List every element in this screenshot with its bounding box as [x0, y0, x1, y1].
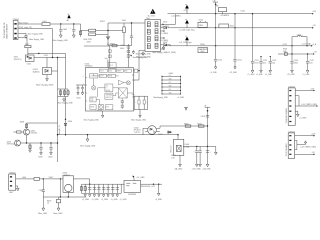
junction rail143 x46	[50, 142, 51, 143]
resistor R608	[25, 123, 27, 129]
CN504 pin 4	[289, 149, 291, 150]
svg-text:MAIN CHASSIS: MAIN CHASSIS	[5, 23, 8, 38]
svg-text:TO AUDIO BOARD: TO AUDIO BOARD	[285, 107, 288, 123]
capacitor C620	[39, 179, 45, 208]
svg-text:REG: REG	[199, 25, 203, 27]
svg-text:D502: D502	[163, 22, 167, 24]
IC601 pin number specks	[83, 75, 135, 97]
svg-text:+5_15W_Light_Reg: +5_15W_Light_Reg	[179, 29, 195, 32]
net flag +B	[204, 106, 210, 112]
junction mod out 2	[158, 184, 159, 185]
svg-text:C608: C608	[38, 156, 42, 158]
rail +5V	[170, 27, 312, 29]
snubber R611	[134, 69, 140, 72]
svg-text:104: 104	[272, 63, 275, 65]
net flag mid	[184, 107, 188, 110]
svg-text:L503: L503	[297, 34, 301, 36]
label D606	[185, 144, 190, 148]
IC gnd pin stub	[102, 111, 104, 118]
junction rail143 x57	[57, 142, 58, 143]
sense cap C613	[143, 96, 147, 109]
resistor R607	[127, 50, 130, 53]
svg-text:+5_GND: +5_GND	[92, 199, 100, 201]
svg-text:Main Supply_GND: Main Supply_GND	[36, 84, 54, 86]
junction rail2 x215	[215, 27, 216, 28]
ground pin3	[25, 36, 28, 39]
T601 secondary winding 1	[155, 22, 158, 27]
svg-text:Main Supply_GND: Main Supply_GND	[131, 120, 147, 122]
label Q602 KSC945	[31, 130, 38, 134]
wire x60 down	[59, 179, 61, 197]
ground divider	[63, 98, 66, 102]
resistor R606	[127, 46, 130, 49]
svg-text:OSC: OSC	[109, 70, 112, 72]
junction gnd rail x60	[60, 196, 61, 197]
feedback rail y126	[160, 125, 208, 127]
warning triangle W3	[185, 19, 189, 28]
module out gnd branch	[155, 184, 163, 201]
vertical feed x215	[215, 4, 217, 45]
inductor L604	[34, 178, 40, 181]
svg-text:+5A_GND: +5A_GND	[202, 168, 211, 171]
block VREF	[116, 69, 123, 72]
net arrow +5V right	[312, 25, 316, 28]
IC sense gnd right	[139, 112, 141, 118]
label IC603 KA431	[33, 69, 40, 73]
standby output rail	[82, 183, 125, 185]
ground C603	[72, 35, 75, 38]
svg-text:TO KEYBOARD: TO KEYBOARD	[285, 143, 288, 157]
ground arrow fb	[202, 164, 211, 170]
gnd arrow row 2	[89, 195, 91, 197]
ground T601	[142, 52, 145, 56]
wire reg gnd	[67, 192, 69, 197]
svg-text:KSC945: KSC945	[31, 133, 38, 135]
block LOCK	[90, 74, 98, 78]
wire standby input	[16, 178, 34, 180]
junction rail1 x235	[234, 13, 235, 14]
zener ZD601	[127, 55, 130, 58]
wire T602 top	[177, 135, 179, 140]
CN503 pin 1	[289, 90, 291, 91]
svg-text:(+12_SMD): (+12_SMD)	[171, 16, 181, 18]
connector CN503	[288, 88, 295, 126]
op-amp controller IC601 body	[86, 68, 134, 112]
filter branch 1	[80, 184, 82, 193]
T601 drain wire to IC	[134, 50, 146, 80]
CN602 pin 2	[10, 181, 12, 182]
svg-text:D604: D604	[68, 121, 72, 123]
net flag B+ top	[213, 1, 218, 6]
rail +12V	[168, 13, 313, 15]
svg-text:SCL: SCL	[169, 89, 172, 91]
capacitor C602	[59, 24, 67, 35]
ground arrow C521	[247, 70, 255, 76]
wire IC603 gnd	[46, 75, 49, 82]
block sense B	[98, 105, 104, 109]
CN504 pin 2	[289, 140, 291, 141]
warning triangle W4	[185, 36, 189, 46]
capacitor C523	[269, 56, 277, 70]
regulator module IC605	[124, 180, 141, 192]
junction rail3 x307	[306, 45, 307, 46]
svg-text:+5_GND: +5_GND	[120, 199, 128, 201]
svg-text:+5A_GND: +5A_GND	[174, 168, 183, 171]
label F503	[283, 49, 287, 53]
wire Q602 emitter	[26, 135, 28, 143]
resistor R604	[109, 50, 112, 53]
T601 secondary winding 2	[155, 29, 158, 34]
CN504 pin 3	[289, 144, 291, 145]
regulator IC510	[198, 21, 207, 27]
block OSC	[108, 69, 115, 72]
junction fb x207 y146	[207, 146, 208, 147]
ground Main Supply_GND2	[153, 46, 177, 54]
junction C602	[60, 23, 61, 24]
wire CN503 pin4 gnd	[295, 104, 318, 107]
sense RC loop	[132, 96, 147, 109]
cap left of IC B	[81, 85, 84, 95]
svg-text:Main_GND: Main_GND	[54, 213, 64, 215]
connector CN602	[9, 174, 16, 190]
filter branch 8	[111, 184, 114, 193]
T601 primary winding 4	[147, 44, 150, 49]
T601 output diode D503	[161, 44, 171, 47]
svg-text:+5V: +5V	[169, 75, 172, 77]
rail +5 sub	[278, 53, 313, 55]
cap left of IC A	[76, 85, 86, 95]
capacitor C609	[48, 143, 53, 158]
ground arrow C523	[265, 70, 273, 76]
capacitor C619	[198, 147, 201, 167]
svg-text:REG_5V: REG_5V	[171, 145, 173, 153]
svg-text:OCP: OCP	[91, 98, 94, 100]
ground R623	[54, 208, 64, 215]
resistor R602	[112, 44, 117, 46]
svg-text:SOFT: SOFT	[100, 76, 104, 78]
svg-text:(PHOTO): (PHOTO)	[14, 59, 22, 61]
junction rail3 x215	[215, 45, 216, 46]
ground arrow C514	[229, 67, 238, 74]
CN504 pin 5	[289, 154, 291, 155]
connector CN504	[288, 133, 294, 159]
T601 primary winding 3	[147, 36, 150, 41]
warning triangle W2	[185, 4, 189, 14]
svg-text:Main Supply_GND: Main Supply_GND	[84, 120, 100, 122]
driver X block	[118, 88, 127, 98]
label D604	[65, 119, 72, 123]
CN503 pin 3	[289, 100, 291, 101]
net arrow +12V right	[312, 11, 317, 14]
svg-text:HV: HV	[126, 70, 128, 72]
svg-text:C620: C620	[39, 190, 43, 192]
svg-text:Main(B)_5V: Main(B)_5V	[59, 124, 61, 134]
T601 secondary winding 3	[155, 36, 158, 41]
warning triangle W0	[67, 14, 71, 22]
svg-text:+12_GND: +12_GND	[229, 72, 238, 74]
warning triangle W1	[150, 9, 155, 14]
ground stub x215	[214, 147, 217, 155]
svg-text:GND: GND	[169, 79, 172, 81]
svg-text:+5_GND: +5_GND	[101, 199, 109, 201]
junction rail2 x235	[234, 27, 235, 28]
T601 gnd stub	[144, 50, 146, 52]
CN601 pin 4	[14, 37, 16, 39]
varistor RV601	[80, 24, 82, 37]
CN601 pin 2	[14, 28, 16, 30]
svg-text:+: +	[194, 150, 195, 152]
svg-text:C605: C605	[120, 45, 124, 47]
svg-text:+12V_GND: +12V_GND	[192, 169, 202, 171]
net arrow +5V sub right	[313, 52, 317, 55]
svg-text:+5_GND: +5_GND	[155, 199, 163, 201]
IC601 right pin ticks	[132, 75, 134, 95]
net label Main Supply_5W5	[130, 55, 147, 59]
ground CN602	[16, 186, 19, 191]
ground branch x87	[86, 134, 89, 142]
CN503 pin 7	[289, 121, 291, 122]
svg-text:R512: R512	[230, 26, 234, 28]
internal wire bottom	[96, 88, 105, 105]
svg-text:C531: C531	[282, 44, 286, 46]
gnd arrow row 1	[84, 195, 86, 197]
svg-text:470U: 470U	[294, 63, 299, 65]
capacitor C513 below rail3	[214, 46, 222, 67]
IC601 left pin ticks	[86, 78, 88, 102]
block beamer gnd	[198, 48, 208, 54]
ladder rung 3	[161, 82, 181, 84]
block PWM B	[108, 74, 116, 77]
svg-text:Main Supply_GND: Main Supply_GND	[53, 40, 69, 42]
svg-text:SHUTDN: SHUTDN	[106, 97, 112, 99]
fuse F601	[123, 23, 126, 46]
label IC604	[62, 173, 70, 177]
line filter L602 winding B	[89, 33, 96, 36]
svg-text:(+5A): (+5A)	[185, 145, 190, 148]
ladder rung 5	[161, 89, 181, 91]
block sense A	[90, 105, 96, 109]
rail +3.3V	[163, 45, 311, 47]
wire pin2 net	[18, 29, 52, 58]
junction x52	[52, 57, 53, 58]
block UVLO	[99, 69, 107, 72]
link rail3 to rail4	[291, 46, 293, 54]
ladder rung 4	[161, 85, 181, 88]
regulator IC604	[63, 176, 74, 193]
gnd label row	[82, 199, 127, 201]
wire IC603 right	[52, 70, 58, 72]
resistor R623	[56, 197, 60, 208]
wire bulk rail	[108, 45, 128, 47]
module output wire	[141, 183, 163, 185]
mixer circle	[126, 81, 130, 85]
wire CN504 gnd branch	[297, 141, 317, 149]
ground arrow C513	[210, 67, 218, 74]
capacitor C616	[201, 115, 210, 118]
junction out x196	[196, 146, 197, 147]
resistor R619	[198, 125, 204, 127]
svg-text:+3.3_15W_Light: +3.3_15W_Light	[179, 41, 193, 44]
svg-text:DTC: DTC	[169, 82, 172, 84]
wire L604 to reg	[40, 178, 64, 180]
gnd arrow row 4	[98, 195, 100, 197]
svg-text:+: +	[96, 189, 97, 191]
ground bulk	[132, 50, 134, 54]
svg-text:(5A): (5A)	[283, 50, 287, 53]
svg-text:LEB: LEB	[106, 107, 109, 109]
svg-text:TP601: TP601	[100, 21, 105, 23]
wire reg out	[74, 179, 90, 184]
capacitor C524	[290, 54, 298, 70]
svg-text:SENS: SENS	[91, 106, 95, 108]
block HV	[125, 69, 131, 72]
svg-text:R530: R530	[200, 44, 204, 46]
HV startup block	[108, 63, 116, 69]
fuse F503 on rail4	[284, 53, 287, 56]
label R620	[171, 155, 175, 159]
filter branch 4	[93, 184, 97, 193]
CN601 pin 3	[14, 33, 16, 35]
wire photo to node	[34, 57, 66, 59]
optocoupler IC602	[148, 126, 157, 135]
svg-text:C514: C514	[237, 59, 241, 61]
filter branch 5	[97, 184, 100, 193]
svg-text:R608: R608	[20, 121, 24, 123]
svg-text:GND: GND	[200, 51, 205, 53]
wire Vstr top	[105, 57, 109, 68]
junction rail3 x292	[291, 45, 292, 46]
resistor R605	[109, 55, 112, 58]
svg-text:C610: C610	[76, 97, 80, 99]
transistor Q601	[15, 140, 21, 146]
resistor R512	[219, 24, 234, 28]
wire HV feed	[84, 46, 110, 68]
svg-text:C612: C612	[27, 63, 31, 65]
CN503 pin 6	[289, 116, 291, 117]
svg-text:C602: C602	[63, 29, 67, 31]
T601 output pin +12 stub	[161, 14, 176, 25]
svg-text:CMP: CMP	[91, 100, 94, 102]
svg-text:Vstr: Vstr	[105, 57, 109, 60]
capacitor C617	[206, 151, 212, 154]
junction Q602 emitter	[26, 142, 27, 143]
svg-text:+: +	[105, 189, 106, 191]
svg-text:MainSupply_GND: MainSupply_GND	[154, 97, 169, 99]
CN503 pin 4	[289, 105, 291, 106]
junction rail1 x215	[215, 13, 216, 14]
main gnd rail	[58, 134, 179, 136]
junction gnd rail x65	[65, 134, 66, 135]
ground arrow C524	[287, 70, 296, 76]
junction C603	[73, 23, 74, 24]
wire T602 output	[183, 146, 216, 148]
svg-text:(+5V_SMPS_GND): (+5V_SMPS_GND)	[302, 104, 318, 106]
startup chain x128	[127, 44, 129, 68]
svg-text:Main Power: Main Power	[19, 23, 29, 25]
ladder rung 1	[161, 75, 181, 77]
gnd arrow row 8	[116, 195, 118, 197]
wire CN503 pin1 +12V	[295, 88, 315, 91]
vertical net x65	[65, 53, 67, 134]
photocoupler D601	[26, 55, 35, 62]
svg-text:+5_GND: +5_GND	[299, 118, 307, 120]
svg-text:KA78R05: KA78R05	[62, 174, 70, 177]
CN601 pin 1	[14, 23, 16, 25]
junction mod out 1	[153, 184, 154, 185]
resistor R609	[14, 131, 24, 133]
junction rail143 x38	[40, 142, 41, 143]
filter branch 6	[102, 184, 106, 193]
svg-text:L604: L604	[22, 177, 26, 179]
junction x57	[57, 57, 58, 58]
block OCP	[90, 97, 96, 102]
resistor R618	[185, 125, 191, 127]
svg-text:+5_GND: +5_GND	[302, 74, 310, 76]
wire CN504 pin2 loop	[295, 140, 297, 149]
junction x60	[60, 178, 61, 179]
wire opto left pins	[143, 128, 148, 134]
capacitor C522	[259, 56, 267, 70]
resistor R610	[29, 143, 32, 152]
capacitor C614	[67, 89, 69, 97]
gnd arrow row 7	[112, 195, 114, 197]
svg-text:KEY: KEY	[9, 192, 14, 194]
filter branch 10	[120, 184, 122, 193]
wire CN504 pin1 +12V	[295, 134, 316, 137]
wire fuse to transformer	[108, 22, 145, 24]
label IC602 PHOTO	[14, 56, 22, 60]
ground arrow C522	[256, 70, 264, 76]
svg-text:R: R	[106, 88, 107, 90]
diode D602	[106, 37, 110, 40]
wire CN503 pin2 loop	[295, 96, 299, 106]
label Q601	[7, 141, 15, 145]
feedback divider rail	[58, 89, 69, 97]
junction rail4 x307	[307, 53, 308, 54]
wire filter to fuse	[96, 30, 123, 32]
gnd arrow row 3	[93, 195, 95, 197]
connector CN601	[13, 21, 18, 40]
ladder rung 2	[161, 79, 181, 81]
filter branch 7	[106, 184, 109, 193]
junction fb x207 y126	[207, 125, 208, 126]
wire pin4 down to R612	[18, 38, 28, 56]
svg-text:KA78R06: KA78R06	[128, 193, 136, 196]
capacitor C514 below rail2	[233, 28, 241, 67]
resistor R617	[63, 89, 65, 97]
vertical net x57	[57, 58, 59, 163]
svg-text:L506: L506	[241, 10, 245, 12]
junction x43	[43, 178, 44, 179]
capacitor C618	[194, 147, 199, 167]
svg-text:+12_GND: +12_GND	[287, 74, 296, 76]
ladder rung 6	[161, 93, 181, 95]
transistor Q602	[24, 129, 30, 135]
ground C602	[59, 35, 62, 38]
gnd arrow row 5	[102, 195, 104, 197]
CN504 pin 1	[289, 135, 291, 136]
junction gnd rail x57	[57, 134, 58, 135]
wire T602 bottom gnd	[174, 155, 183, 170]
svg-text:+5L_GND: +5L_GND	[136, 177, 145, 179]
wire L601 to filter	[50, 24, 89, 31]
label IC602 PC817	[134, 127, 141, 134]
svg-text:Main Supply_GND: Main Supply_GND	[28, 34, 44, 36]
svg-text:+12VSMPS: +12VSMPS	[220, 15, 230, 17]
filter branch 3	[88, 184, 91, 193]
resistor R612	[25, 44, 31, 48]
svg-text:F601: F601	[122, 20, 126, 22]
